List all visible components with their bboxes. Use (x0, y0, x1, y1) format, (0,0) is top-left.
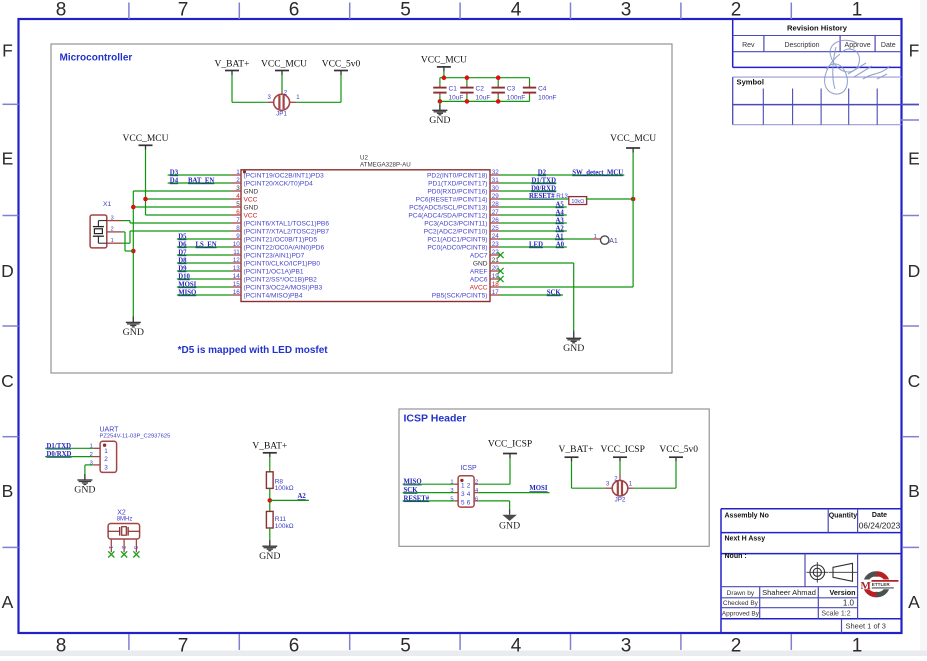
svg-text:UART: UART (100, 427, 120, 434)
svg-text:GND: GND (563, 343, 584, 354)
svg-text:7: 7 (236, 217, 240, 224)
svg-text:Version: Version (830, 588, 856, 597)
svg-text:X2: X2 (117, 510, 126, 517)
svg-text:VCC_MCU: VCC_MCU (421, 55, 467, 65)
svg-text:X1: X1 (103, 201, 112, 208)
svg-text:D8: D8 (178, 258, 187, 265)
svg-text:ADC7: ADC7 (470, 252, 488, 259)
svg-text:Scale 1:2: Scale 1:2 (821, 610, 850, 617)
svg-text:3: 3 (621, 0, 632, 21)
svg-text:MISO: MISO (404, 479, 422, 486)
svg-text:V_BAT+: V_BAT+ (559, 445, 594, 455)
svg-text:13: 13 (233, 265, 241, 272)
svg-text:PC5(ADC5/SCL/PCINT13): PC5(ADC5/SCL/PCINT13) (409, 204, 487, 211)
svg-text:D: D (1, 261, 14, 281)
svg-text:16: 16 (233, 289, 241, 296)
svg-text:6: 6 (467, 499, 471, 506)
svg-text:(PCINT21/OC0B/T1)PD5: (PCINT21/OC0B/T1)PD5 (244, 236, 318, 243)
svg-text:F: F (2, 41, 13, 61)
svg-text:100nF: 100nF (507, 95, 525, 102)
svg-text:12: 12 (233, 257, 241, 264)
svg-text:8: 8 (56, 636, 67, 657)
svg-text:100nF: 100nF (538, 95, 556, 102)
svg-text:SCK: SCK (404, 487, 419, 494)
svg-text:VCC_ICSP: VCC_ICSP (488, 440, 532, 450)
svg-text:SW_detect_MCU: SW_detect_MCU (572, 170, 623, 177)
svg-text:D3: D3 (170, 170, 179, 177)
svg-text:LED: LED (529, 242, 543, 249)
svg-text:1: 1 (104, 448, 108, 455)
svg-text:D1/TXD: D1/TXD (47, 443, 72, 450)
svg-text:D2: D2 (538, 170, 547, 177)
svg-text:21: 21 (492, 257, 500, 264)
svg-text:10: 10 (233, 241, 241, 248)
svg-text:B: B (908, 481, 920, 501)
svg-text:Quantity: Quantity (829, 513, 857, 520)
svg-text:23: 23 (492, 241, 500, 248)
svg-text:A: A (2, 592, 14, 612)
svg-text:ATMEGA328P-AU: ATMEGA328P-AU (360, 161, 411, 168)
svg-text:VCC_ICSP: VCC_ICSP (601, 445, 645, 455)
svg-text:PB5(SCK/PCINT5): PB5(SCK/PCINT5) (432, 292, 488, 299)
svg-text:4: 4 (467, 491, 471, 498)
svg-text:PC0(ADC0/PCINT8): PC0(ADC0/PCINT8) (427, 244, 487, 251)
svg-text:7: 7 (178, 636, 189, 657)
svg-text:1: 1 (852, 0, 863, 21)
svg-text:18: 18 (492, 281, 500, 288)
svg-text:06/24/2023: 06/24/2023 (859, 521, 901, 531)
svg-text:7: 7 (178, 0, 189, 21)
svg-text:VCC: VCC (244, 212, 258, 219)
svg-text:PC4(ADC4/SDA/PCINT12): PC4(ADC4/SDA/PCINT12) (408, 212, 487, 219)
svg-text:A5: A5 (555, 202, 564, 209)
svg-text:Revision History: Revision History (787, 24, 848, 33)
svg-text:100kΩ: 100kΩ (275, 485, 294, 492)
svg-text:3: 3 (111, 216, 114, 222)
svg-text:B: B (2, 481, 14, 501)
svg-text:D: D (908, 261, 921, 281)
svg-text:A: A (908, 592, 920, 612)
svg-text:Shaheer Ahmad: Shaheer Ahmad (762, 588, 816, 597)
svg-text:2: 2 (731, 0, 742, 21)
svg-text:2: 2 (236, 177, 240, 184)
svg-text:A3: A3 (555, 218, 564, 225)
svg-text:AVCC: AVCC (470, 284, 488, 291)
svg-text:Date: Date (881, 42, 896, 49)
svg-text:100kΩ: 100kΩ (275, 523, 294, 530)
svg-text:(PCINT0/CLKO/ICP1)PB0: (PCINT0/CLKO/ICP1)PB0 (244, 260, 321, 267)
svg-text:R11: R11 (275, 516, 287, 523)
svg-text:Drawn by: Drawn by (727, 590, 755, 597)
svg-text:BAT_EN: BAT_EN (188, 178, 214, 185)
svg-text:Approved By: Approved By (722, 611, 760, 618)
svg-text:GND: GND (123, 327, 144, 338)
svg-text:(PCINT6/XTAL1/TOSC1)PB6: (PCINT6/XTAL1/TOSC1)PB6 (244, 220, 330, 227)
svg-text:A4: A4 (555, 210, 564, 217)
svg-text:1: 1 (107, 546, 113, 549)
svg-text:(PCINT2/SS*/OC1B)PB2: (PCINT2/SS*/OC1B)PB2 (244, 276, 318, 283)
svg-text:26: 26 (492, 217, 500, 224)
svg-text:2: 2 (104, 456, 108, 463)
svg-text:1.0: 1.0 (843, 599, 855, 608)
svg-text:(PCINT22/OC0A/AIN0)PD6: (PCINT22/OC0A/AIN0)PD6 (244, 244, 325, 251)
svg-text:D0/RXD: D0/RXD (531, 186, 556, 193)
svg-text:6: 6 (236, 209, 240, 216)
svg-text:MOSI: MOSI (529, 485, 547, 492)
svg-text:Microcontroller: Microcontroller (60, 53, 133, 64)
svg-text:5: 5 (400, 0, 411, 21)
svg-text:(PCINT3/OC2A/MOSI)PB3: (PCINT3/OC2A/MOSI)PB3 (244, 284, 323, 291)
svg-text:6: 6 (289, 636, 300, 657)
svg-text:RESET#: RESET# (404, 495, 430, 502)
svg-text:GND: GND (244, 188, 259, 195)
svg-text:*D5 is mapped with LED mosfet: *D5 is mapped with LED mosfet (178, 345, 329, 356)
svg-text:D1/TXD: D1/TXD (531, 178, 556, 185)
svg-text:2: 2 (120, 546, 126, 549)
svg-text:3: 3 (104, 465, 108, 472)
svg-text:PC6(RESET#/PCINT14): PC6(RESET#/PCINT14) (416, 196, 488, 203)
svg-text:4: 4 (511, 0, 522, 21)
svg-text:ETTLER: ETTLER (872, 582, 891, 587)
svg-text:E: E (908, 148, 920, 168)
svg-text:R13: R13 (556, 193, 568, 200)
svg-text:Description: Description (784, 42, 819, 49)
svg-text:VCC_MCU: VCC_MCU (123, 134, 169, 144)
svg-text:F: F (909, 41, 920, 61)
svg-text:1: 1 (594, 234, 597, 240)
svg-text:Sheet 1 of 3: Sheet 1 of 3 (846, 622, 886, 631)
svg-text:27: 27 (492, 209, 500, 216)
svg-text:30: 30 (492, 185, 500, 192)
svg-text:MOSI: MOSI (178, 282, 196, 289)
svg-text:MISO: MISO (178, 290, 196, 297)
svg-text:5: 5 (400, 636, 411, 657)
svg-text:GND: GND (74, 485, 95, 496)
svg-text:8MHz: 8MHz (117, 517, 133, 523)
svg-text:VCC_5v0: VCC_5v0 (659, 445, 698, 455)
svg-text:28: 28 (492, 201, 500, 208)
svg-text:SCK: SCK (547, 290, 562, 297)
svg-text:29: 29 (492, 193, 500, 200)
svg-text:D9: D9 (178, 266, 187, 273)
svg-text:3: 3 (132, 546, 138, 549)
svg-text:2: 2 (731, 636, 742, 657)
svg-text:E: E (2, 148, 14, 168)
svg-text:(PCINT4/MISO)PB4: (PCINT4/MISO)PB4 (244, 292, 303, 299)
svg-text:RESET#: RESET# (529, 193, 555, 200)
svg-text:VCC_MCU: VCC_MCU (261, 60, 307, 70)
svg-text:C: C (1, 371, 14, 391)
svg-text:PZ254V-11-03P_C2937625: PZ254V-11-03P_C2937625 (100, 434, 171, 440)
svg-text:GND: GND (244, 204, 259, 211)
svg-text:17: 17 (492, 289, 500, 296)
svg-text:PD0(RXD/PCINT16): PD0(RXD/PCINT16) (427, 188, 487, 195)
svg-text:C2: C2 (476, 85, 485, 92)
svg-text:5: 5 (461, 499, 465, 506)
svg-text:GND: GND (259, 551, 280, 562)
svg-text:9: 9 (236, 233, 240, 240)
svg-text:1: 1 (236, 169, 240, 176)
svg-text:JP2: JP2 (615, 497, 626, 504)
svg-text:VCC_MCU: VCC_MCU (610, 134, 656, 144)
svg-text:3: 3 (621, 636, 632, 657)
svg-text:31: 31 (492, 177, 500, 184)
svg-text:Date: Date (872, 512, 887, 519)
svg-text:25: 25 (492, 225, 500, 232)
svg-text:A2: A2 (555, 226, 564, 233)
svg-text:11: 11 (233, 249, 240, 256)
svg-text:10uF: 10uF (449, 95, 464, 102)
svg-text:GND: GND (473, 260, 488, 267)
svg-text:1: 1 (111, 238, 114, 244)
svg-text:8: 8 (236, 225, 240, 232)
svg-text:10uF: 10uF (476, 95, 491, 102)
svg-text:GND: GND (499, 520, 520, 531)
svg-text:D7: D7 (178, 250, 187, 257)
svg-text:D5: D5 (178, 234, 187, 241)
svg-text:ICSP: ICSP (460, 465, 477, 472)
svg-text:32: 32 (492, 169, 500, 176)
svg-text:PD1(TXD/PCINT17): PD1(TXD/PCINT17) (428, 180, 487, 187)
svg-text:D0/RXD: D0/RXD (47, 451, 72, 458)
svg-text:Approve: Approve (845, 42, 871, 49)
svg-text:LS_EN: LS_EN (196, 242, 217, 249)
svg-text:PC1(ADC1/PCINT9): PC1(ADC1/PCINT9) (427, 236, 487, 243)
svg-text:PD2(INT0/PCINT18): PD2(INT0/PCINT18) (427, 172, 487, 179)
svg-text:A0: A0 (556, 242, 565, 249)
svg-text:3: 3 (461, 491, 465, 498)
svg-text:PC2(ADC2/PCINT10): PC2(ADC2/PCINT10) (424, 228, 488, 235)
svg-text:JP1: JP1 (276, 111, 287, 118)
svg-text:(PCINT23/AIN1)PD7: (PCINT23/AIN1)PD7 (244, 252, 305, 259)
svg-text:6: 6 (475, 496, 478, 502)
svg-text:VCC: VCC (244, 196, 258, 203)
svg-text:GND: GND (429, 115, 450, 126)
svg-text:A1: A1 (555, 234, 564, 241)
svg-text:Next H Assy: Next H Assy (725, 536, 766, 543)
svg-text:5: 5 (236, 201, 240, 208)
svg-text:2: 2 (475, 480, 478, 486)
svg-text:Checked By: Checked By (723, 600, 759, 607)
svg-text:4: 4 (511, 636, 522, 657)
svg-text:24: 24 (492, 233, 500, 240)
svg-text:C: C (908, 371, 921, 391)
svg-text:A2: A2 (297, 493, 306, 500)
svg-text:V_BAT+: V_BAT+ (215, 60, 250, 70)
svg-text:C1: C1 (449, 85, 458, 92)
svg-text:(PCINT20/XCK/T0)PD4: (PCINT20/XCK/T0)PD4 (244, 180, 314, 187)
svg-text:Assembly No: Assembly No (725, 513, 769, 520)
svg-text:10kΩ: 10kΩ (571, 199, 584, 205)
svg-text:1: 1 (852, 636, 863, 657)
svg-text:8: 8 (56, 0, 67, 21)
svg-text:ICSP Header: ICSP Header (404, 412, 467, 424)
svg-text:D10: D10 (178, 274, 190, 281)
svg-text:2: 2 (467, 483, 471, 490)
svg-text:V_BAT+: V_BAT+ (252, 442, 287, 452)
svg-text:M: M (861, 580, 872, 592)
svg-text:C3: C3 (507, 85, 516, 92)
svg-text:(PCINT1/OC1A)PB1: (PCINT1/OC1A)PB1 (244, 268, 304, 275)
svg-text:2: 2 (111, 226, 114, 232)
svg-text:4: 4 (236, 193, 240, 200)
svg-text:AREF: AREF (470, 268, 488, 275)
svg-text:(PCINT19/OC2B/INT1)PD3: (PCINT19/OC2B/INT1)PD3 (244, 172, 325, 179)
svg-text:D4: D4 (170, 178, 179, 185)
svg-text:15: 15 (233, 281, 241, 288)
svg-text:1: 1 (461, 483, 465, 490)
svg-text:14: 14 (233, 273, 241, 280)
svg-text:ADC6: ADC6 (470, 276, 488, 283)
svg-text:6: 6 (289, 0, 300, 21)
svg-text:Symbol: Symbol (737, 78, 764, 87)
svg-text:VCC_5v0: VCC_5v0 (322, 60, 361, 70)
svg-text:Rev: Rev (742, 42, 755, 49)
svg-text:A1: A1 (609, 238, 618, 245)
svg-text:C4: C4 (538, 85, 547, 92)
svg-text:3: 3 (236, 185, 240, 192)
svg-text:D6: D6 (178, 242, 187, 249)
svg-text:PC3(ADC3/PCINT11): PC3(ADC3/PCINT11) (424, 220, 487, 227)
svg-text:(PCINT7/XTAL2/TOSC2)PB7: (PCINT7/XTAL2/TOSC2)PB7 (244, 228, 330, 235)
svg-text:Noun :: Noun : (725, 553, 747, 560)
